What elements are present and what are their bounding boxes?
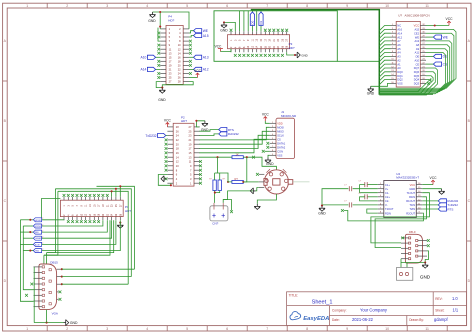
junction [321, 205, 323, 207]
wire P2 pin27 to GND [196, 121, 205, 127]
connector DIN mini-DIN-6 [264, 169, 293, 194]
svg-text:A13: A13 [414, 39, 419, 43]
wire P4 pin28 to GND [162, 82, 193, 88]
svg-text:A7: A7 [397, 39, 401, 43]
resistor R? 1K [232, 156, 243, 159]
svg-text:VSS: VSS [397, 82, 402, 86]
wire VGA signal row 4 [23, 237, 33, 239]
wire U2 VCC [422, 184, 433, 186]
svg-text:A4: A4 [397, 51, 401, 55]
svg-text:NC: NC [397, 24, 401, 28]
svg-text:GND: GND [35, 251, 40, 253]
wire P3 pin3 to GND [224, 22, 235, 31]
wire U2 GND [422, 188, 441, 190]
svg-text:2: 2 [66, 327, 68, 331]
port RxD232 (U2) [438, 199, 446, 203]
port A10 [147, 55, 155, 59]
port A15 (P4) [194, 33, 202, 37]
wire VGA signal row 2 [23, 225, 33, 227]
port GREEN [33, 236, 41, 240]
svg-text:CE: CE [415, 62, 419, 66]
svg-text:C2-: C2- [385, 199, 389, 203]
port BLUE [33, 242, 41, 246]
junction [29, 231, 31, 233]
svg-text:U?: U? [398, 14, 402, 18]
junction [61, 283, 63, 285]
bus entries to U? left pins [379, 26, 390, 31]
svg-text:DQ2: DQ2 [397, 78, 403, 82]
svg-text:10: 10 [385, 4, 389, 8]
ground flag (on DIN wire) [250, 188, 255, 194]
svg-text:9: 9 [346, 4, 348, 8]
svg-text:2: 2 [42, 243, 43, 245]
resistor R? (pullup A) [213, 180, 216, 191]
no-connect P3 bottom pins [234, 54, 237, 57]
wire P4 pin22 [189, 68, 194, 70]
wire loop around P3 [214, 11, 337, 62]
wire left loop to DB15 [46, 253, 48, 264]
wire P2 pin24 [166, 135, 168, 137]
svg-text:R1OUT: R1OUT [406, 199, 415, 203]
wire VCC to P3 pin2 [220, 49, 231, 52]
svg-text:10: 10 [385, 327, 389, 331]
wires U? address pins wrap-around loops [379, 29, 456, 88]
svg-text:Drawn By:: Drawn By: [409, 318, 424, 322]
port RTS (P2) [219, 128, 227, 132]
wire P3 pin7 up [243, 11, 245, 31]
svg-text:R?: R? [235, 177, 239, 181]
svg-text:A14: A14 [141, 68, 147, 72]
junction [216, 156, 218, 158]
svg-text:T2IN: T2IN [409, 207, 415, 211]
ground GND (U?) [368, 86, 374, 92]
svg-text:DB15: DB15 [50, 260, 58, 264]
svg-text:2: 2 [42, 249, 43, 251]
port TxD232 (U2) [438, 203, 446, 207]
ground GND (caps) [319, 206, 325, 212]
svg-text:6: 6 [226, 4, 228, 8]
svg-text:HD?: HD? [168, 18, 174, 22]
wire DB15 right pin wires [57, 268, 62, 270]
wire resistor to DIN [243, 157, 276, 170]
svg-text:A5: A5 [397, 47, 401, 51]
svg-text:CE2: CE2 [414, 31, 420, 35]
svg-text:A10: A10 [141, 56, 147, 60]
wire U? WE pin [426, 36, 433, 38]
svg-text:A11: A11 [415, 51, 420, 55]
wire U? VSS to GND [371, 83, 391, 86]
svg-text:CN?: CN? [212, 222, 218, 226]
junction [242, 181, 244, 183]
svg-text:T1IN: T1IN [409, 203, 415, 207]
wire DB15 signal 2 [62, 276, 132, 278]
svg-text:Sheet:: Sheet: [435, 308, 444, 312]
svg-text:EasyEDA: EasyEDA [303, 316, 329, 322]
wire P4 pin7 elbow [158, 28, 160, 41]
svg-text:VCC: VCC [414, 24, 420, 28]
no-connect DB9 pin1 [401, 237, 404, 240]
svg-text:A12: A12 [203, 68, 209, 72]
port (vertical) on pin15 wire [259, 12, 263, 26]
svg-text:V+: V+ [385, 187, 389, 191]
wire rail2 down-left [47, 189, 56, 253]
power VCC (J1) [264, 117, 268, 121]
wire pullup B top [219, 173, 221, 180]
no-connect flags P4 left [157, 32, 160, 35]
svg-text:VSS: VSS [277, 154, 282, 158]
ground GND (P3) [221, 22, 227, 28]
rail 3 [58, 191, 128, 284]
junction [61, 268, 63, 270]
svg-text:GND: GND [220, 29, 228, 33]
DIN pin stubs [259, 174, 265, 187]
svg-text:HD?: HD? [289, 46, 295, 50]
svg-text:A12: A12 [397, 35, 402, 39]
svg-text:VCC: VCC [430, 176, 438, 180]
svg-text:R2OUT: R2OUT [406, 211, 415, 215]
wire DB15 bottom rail [34, 322, 63, 324]
svg-text:gdampf: gdampf [434, 317, 449, 322]
svg-text:DQ7: DQ7 [414, 66, 420, 70]
svg-text:MAX3232ESE+T: MAX3232ESE+T [396, 176, 419, 180]
junction [61, 276, 63, 278]
svg-text:SCLK: SCLK [277, 134, 284, 138]
capacitor C? (V- to GND) [353, 204, 378, 206]
power VCC (P2) [166, 123, 170, 127]
wire P2 pin15 to MICRO-SD CS [199, 139, 269, 153]
junction [246, 156, 248, 158]
svg-text:A15: A15 [414, 28, 419, 32]
svg-text:VCC: VCC [194, 69, 202, 73]
junction [161, 87, 163, 89]
wire J1 VSS to GND [268, 155, 270, 157]
wire P4 pin4 [189, 31, 194, 33]
wire rail3 down-left [44, 191, 58, 255]
svg-text:C1-: C1- [385, 191, 389, 195]
connector DB15 [39, 264, 57, 310]
svg-text:MISO: MISO [277, 130, 284, 134]
port CS (U?) [433, 62, 441, 66]
wire U2 R2OUT wrap-under [344, 211, 424, 221]
wire P4 pin26 to VCC [189, 77, 198, 79]
ground GND (P4 bottom) [159, 88, 165, 94]
svg-text:VCC: VCC [262, 113, 270, 117]
wire U2 T1IN [422, 204, 438, 206]
connector P3 [228, 35, 290, 49]
svg-text:11: 11 [425, 327, 429, 331]
svg-text:2: 2 [42, 224, 43, 226]
port (vertical) on pin11 wire [250, 12, 254, 26]
IC U2 MAX3232 [384, 181, 417, 218]
svg-text:4: 4 [146, 4, 148, 8]
svg-text:C1+: C1+ [385, 183, 390, 187]
svg-text:BLUE: BLUE [35, 244, 40, 246]
wire P2 pin25 to RTS [199, 130, 218, 132]
wire resistor tie top [215, 172, 220, 174]
capacitor C? (V+ to GND) [353, 188, 378, 190]
svg-text:GREEN: GREEN [35, 238, 42, 240]
svg-text:DB-9: DB-9 [409, 230, 416, 234]
svg-text:9: 9 [346, 327, 348, 331]
svg-text:D0: D0 [251, 20, 255, 24]
wire U2 T2IN [422, 208, 438, 210]
no-connect (R2OUT end) [341, 209, 344, 212]
port GND [33, 249, 41, 253]
svg-text:1/1: 1/1 [453, 308, 459, 313]
wire P4 pin1 to rail [159, 12, 161, 29]
port A14 [147, 67, 155, 71]
wire U2 R1OUT [422, 200, 438, 202]
junction [424, 261, 426, 263]
ground GND (DIN) [254, 204, 260, 210]
junction [159, 11, 161, 13]
wire P2 pin23 to RxD232 [199, 134, 218, 136]
wire P3 pin28 to GND [287, 52, 295, 55]
no-connect P3 top pins [230, 29, 233, 32]
svg-text:R1IN: R1IN [409, 195, 415, 199]
svg-text:2: 2 [66, 4, 68, 8]
capacitor C? (C1+/C1- loop) [367, 184, 378, 186]
wire U2 T2OUT tie loop [367, 209, 378, 213]
svg-text:8: 8 [306, 4, 308, 8]
wire P4 pin16 [189, 56, 194, 58]
connector P4 [166, 26, 183, 85]
svg-text:A15: A15 [203, 34, 209, 38]
wire P3 pin15 to bus [260, 10, 262, 32]
power VCC (U2) [431, 180, 435, 184]
ground flag (P2 bottom left) [161, 176, 166, 182]
wire DB15 shell to rail [46, 310, 48, 323]
svg-text:A6: A6 [397, 43, 401, 47]
no-connect P1 top pins [63, 194, 66, 197]
ground GND (P2 top) [202, 121, 208, 127]
wire P3 pin13 up [256, 11, 258, 31]
component CN? [210, 206, 228, 221]
no-connect flags P2 left [165, 139, 168, 142]
svg-text:1: 1 [26, 327, 28, 331]
no-connect flags P2 right [199, 160, 202, 163]
svg-text:6: 6 [226, 327, 228, 331]
svg-text:VCC: VCC [446, 17, 454, 21]
wire VCC to VDD [265, 121, 269, 123]
wire P4 pin6 [189, 36, 194, 38]
svg-text:GND: GND [367, 92, 375, 96]
svg-text:2021-06-22: 2021-06-22 [352, 317, 374, 322]
wire U? VCC pin [426, 25, 449, 27]
wire P3 pin11 to bus [251, 10, 253, 32]
svg-text:8: 8 [306, 327, 308, 331]
svg-text:VGA: VGA [52, 312, 58, 316]
svg-text:DQ5: DQ5 [414, 74, 420, 78]
svg-text:1K: 1K [236, 152, 239, 156]
wire P4 pin27 to GND [156, 82, 162, 88]
svg-text:A10: A10 [414, 58, 419, 62]
wires P1 top right pins to rails [119, 186, 121, 196]
power VCC (U?) [447, 21, 451, 25]
ground GND (DB15) [64, 320, 69, 326]
wire P2 pin21 to MICRO-SD MOSI [199, 127, 269, 140]
svg-text:VDD: VDD [277, 122, 283, 126]
connector CN (audio jack) [397, 268, 413, 281]
svg-text:11: 11 [425, 4, 429, 8]
no-connect J1 DATA2 [266, 146, 269, 149]
connector DB9 [405, 234, 422, 263]
wire VGA signal row 3 [20, 231, 33, 233]
DIN shield line [293, 181, 310, 183]
ground GND (J1) [265, 157, 271, 163]
wire P2 pin19 to MICRO-SD MISO [199, 131, 269, 144]
IC U? AS6C1008-55PCN [396, 21, 420, 87]
svg-text:DQ4: DQ4 [414, 78, 420, 82]
svg-text:Sheet_1: Sheet_1 [312, 300, 333, 306]
svg-text:DATA1: DATA1 [277, 142, 286, 146]
no-connect mark near wire [252, 156, 255, 159]
svg-text:A13: A13 [203, 56, 209, 60]
ground GND (P3 right) [295, 52, 300, 58]
svg-text:TxD232: TxD232 [145, 134, 156, 138]
svg-text:VSYNC: VSYNC [35, 226, 42, 228]
power VCC (P4) [196, 73, 200, 77]
connector P1 [60, 200, 123, 216]
wire U2 T1OUT wrap-under to DB9 pin [371, 193, 430, 243]
ground GND (P4 top) [149, 12, 155, 18]
svg-text:Your Company: Your Company [360, 308, 388, 313]
no-connect J1 CON [262, 150, 265, 153]
svg-text:T1OUT: T1OUT [407, 191, 416, 195]
resistor R? (pullup B) [218, 180, 221, 191]
svg-text:7: 7 [266, 327, 268, 331]
wire P2 pin13 to resistor R? [199, 156, 232, 158]
wire P2 pin17 to MICRO-SD SCLK [199, 135, 269, 148]
svg-text:CS: CS [277, 138, 281, 142]
port RTS (U2) [438, 207, 446, 211]
wire DB15 signal 1 [62, 268, 135, 270]
svg-text:R2IN: R2IN [385, 211, 391, 215]
no-connect J1 DATA1 [266, 142, 269, 145]
port A13 (P4) [194, 55, 202, 59]
wire P3 pin9 up [247, 11, 249, 31]
wire DIN pin to CN [223, 188, 259, 203]
rail 1 (DB15 to P1) [97, 186, 135, 269]
wire U2 R1IN wrap-under to DB9 pin [375, 197, 426, 248]
svg-text:2: 2 [42, 218, 43, 220]
svg-text:GND: GND [70, 321, 78, 325]
svg-text:HSYNC: HSYNC [35, 220, 42, 222]
wire P3 pin5 up [239, 11, 241, 31]
svg-text:A9: A9 [416, 47, 420, 51]
svg-text:7: 7 [266, 4, 268, 8]
ground GND (U2) [439, 189, 445, 195]
junction [29, 250, 31, 252]
svg-text:VCC: VCC [164, 119, 172, 123]
svg-text:AS6C1008-55PCN: AS6C1008-55PCN [405, 14, 430, 18]
port OE (U?) [433, 54, 441, 58]
svg-text:3: 3 [106, 4, 108, 8]
port WE (U?) [433, 35, 441, 39]
wire DB15 signal 3 [62, 283, 128, 285]
rail 2 [55, 189, 131, 277]
wire VGA signal row 1 [20, 219, 33, 221]
junction [214, 192, 216, 194]
svg-text:A16: A16 [397, 28, 402, 32]
svg-text:WE: WE [203, 29, 209, 33]
bus (address bus left of U?) [251, 10, 433, 94]
wire second resistor branch [243, 157, 247, 182]
port TxD232 (P2) [158, 133, 166, 137]
svg-text:D1: D1 [259, 20, 263, 24]
EasyEDA logo [290, 312, 329, 322]
svg-text:5: 5 [186, 327, 188, 331]
svg-text:T2OUT: T2OUT [385, 207, 394, 211]
wire P4 pin15 [156, 56, 161, 58]
svg-text:WE: WE [415, 35, 419, 39]
svg-text:CON: CON [277, 150, 283, 154]
svg-text:C2+: C2+ [385, 195, 390, 199]
svg-text:GND: GND [409, 187, 415, 191]
wire U? CE pin [426, 63, 433, 65]
svg-text:OE: OE [415, 55, 419, 59]
svg-text:2: 2 [42, 231, 43, 233]
wire DB15 left bus [33, 267, 35, 323]
svg-text:A2: A2 [397, 58, 401, 62]
wire VGA signal row 6 [23, 250, 33, 252]
svg-text:DQ0: DQ0 [397, 70, 403, 74]
no-connect U? DQ3 [427, 82, 430, 85]
wire VGA signal row 5 [20, 243, 33, 245]
junction [170, 184, 172, 186]
wire pullup bottoms join [215, 191, 220, 193]
junction [195, 120, 197, 122]
svg-text:WE: WE [443, 35, 449, 39]
ground GND (DB9) [422, 263, 428, 269]
svg-text:HD?: HD? [181, 119, 187, 123]
svg-text:MOSI: MOSI [277, 126, 284, 130]
no-connect DB9 right pins [427, 239, 430, 242]
svg-text:DQ3: DQ3 [414, 82, 420, 86]
svg-text:Company:: Company: [332, 308, 347, 312]
capacitor C? (C2+/C2- loop) [367, 196, 378, 198]
wire DB9 pin5 down [400, 259, 402, 263]
svg-text:Date:: Date: [332, 318, 340, 322]
svg-text:V-: V- [385, 203, 388, 207]
junction [294, 54, 296, 56]
svg-text:RxD232: RxD232 [228, 132, 239, 136]
svg-text:RTS: RTS [447, 207, 453, 211]
junction [29, 219, 31, 221]
svg-text:DQ1: DQ1 [397, 74, 403, 78]
port RxD232 (P2) [219, 132, 227, 136]
junction [119, 222, 121, 224]
svg-text:GND: GND [148, 19, 156, 23]
svg-text:A3: A3 [397, 55, 401, 59]
svg-text:GND: GND [158, 98, 166, 102]
junction [434, 24, 436, 26]
svg-text:GND: GND [301, 54, 307, 58]
no-connect flags P4 right [189, 40, 192, 43]
svg-text:2: 2 [42, 237, 43, 239]
junction [227, 181, 229, 183]
wire P4 pin21 [156, 68, 161, 70]
no-connect (CN branch) [230, 210, 233, 213]
wire DB9 GND rail [401, 251, 429, 263]
no-connect DB15 left pins [30, 283, 33, 286]
port A12 (P4) [194, 67, 202, 71]
svg-text:TITLE:: TITLE: [289, 294, 299, 298]
junction [46, 322, 48, 324]
svg-text:DATA2: DATA2 [277, 146, 286, 150]
svg-text:MICRO-SD: MICRO-SD [281, 114, 297, 118]
wire P4 top GND rail [153, 12, 190, 29]
